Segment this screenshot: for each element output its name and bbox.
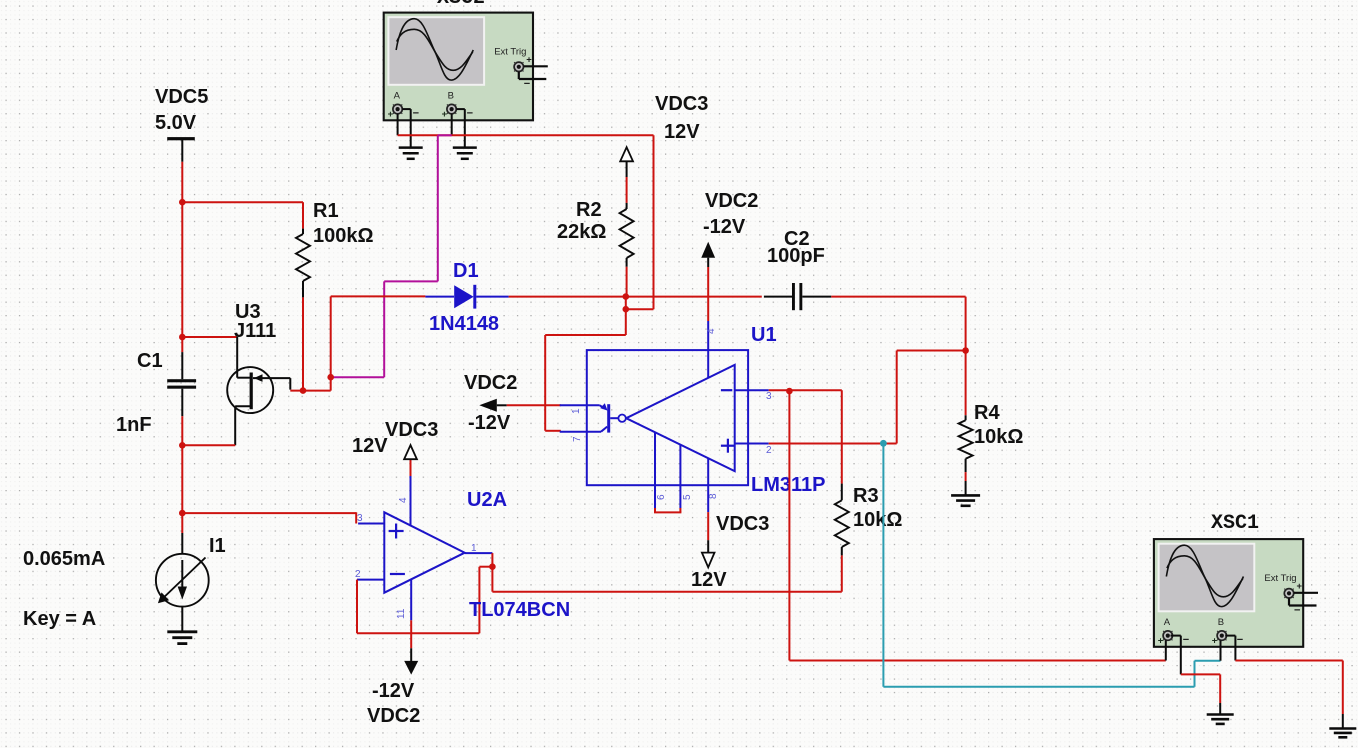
- svg-text:-12V: -12V: [372, 680, 415, 702]
- svg-text:VDC3: VDC3: [385, 419, 438, 441]
- svg-text:7: 7: [572, 436, 583, 442]
- svg-text:B: B: [1218, 617, 1224, 628]
- svg-text:−: −: [524, 78, 530, 90]
- svg-text:−: −: [1294, 604, 1300, 616]
- svg-text:1nF: 1nF: [116, 414, 152, 436]
- svg-text:U2A: U2A: [467, 489, 507, 511]
- svg-text:100pF: 100pF: [767, 245, 825, 267]
- svg-text:R3: R3: [853, 485, 879, 507]
- svg-text:11: 11: [396, 608, 407, 619]
- svg-text:−: −: [467, 108, 473, 120]
- svg-text:XSC1: XSC1: [1211, 512, 1259, 535]
- svg-text:−: −: [1183, 634, 1189, 646]
- svg-text:LM311P: LM311P: [751, 474, 825, 496]
- svg-text:3: 3: [357, 513, 363, 524]
- svg-text:+: +: [1212, 636, 1218, 647]
- svg-text:4: 4: [706, 328, 717, 334]
- svg-text:10kΩ: 10kΩ: [853, 509, 902, 531]
- svg-text:TL074BCN: TL074BCN: [469, 599, 570, 621]
- svg-text:2: 2: [355, 569, 361, 580]
- svg-text:A: A: [1164, 617, 1171, 628]
- svg-text:5.0V: 5.0V: [155, 112, 197, 134]
- svg-text:1: 1: [571, 408, 582, 414]
- svg-text:B: B: [448, 91, 454, 102]
- svg-text:1N4148: 1N4148: [429, 313, 499, 335]
- svg-text:6: 6: [656, 494, 667, 500]
- svg-text:100kΩ: 100kΩ: [313, 225, 374, 247]
- svg-text:12V: 12V: [691, 569, 727, 591]
- svg-text:J111: J111: [234, 320, 276, 342]
- svg-text:+: +: [526, 54, 532, 65]
- svg-text:3: 3: [766, 391, 772, 402]
- svg-text:1: 1: [471, 543, 477, 554]
- svg-text:C1: C1: [137, 350, 163, 372]
- svg-text:VDC3: VDC3: [655, 93, 708, 115]
- svg-text:A: A: [394, 91, 401, 102]
- svg-text:−: −: [1237, 634, 1243, 646]
- svg-text:-12V: -12V: [468, 412, 511, 434]
- svg-text:12V: 12V: [664, 121, 700, 143]
- svg-text:5: 5: [682, 494, 693, 500]
- svg-text:VDC2: VDC2: [705, 190, 758, 212]
- svg-text:XSC2: XSC2: [437, 0, 485, 10]
- svg-text:+: +: [388, 109, 394, 120]
- svg-text:VDC5: VDC5: [155, 86, 208, 108]
- svg-text:2: 2: [766, 445, 772, 456]
- svg-text:VDC2: VDC2: [464, 372, 517, 394]
- svg-text:12V: 12V: [352, 435, 388, 457]
- svg-text:Key = A: Key = A: [23, 608, 96, 630]
- svg-text:+: +: [1158, 636, 1164, 647]
- svg-text:-12V: -12V: [703, 216, 746, 238]
- svg-text:VDC2: VDC2: [367, 705, 420, 727]
- svg-text:8: 8: [708, 493, 719, 499]
- svg-text:U1: U1: [751, 324, 777, 346]
- svg-text:+: +: [1297, 581, 1303, 592]
- svg-text:0.065mA: 0.065mA: [23, 548, 105, 570]
- svg-text:Ext Trig: Ext Trig: [494, 47, 526, 58]
- svg-text:+: +: [442, 109, 448, 120]
- svg-text:4: 4: [398, 497, 409, 503]
- svg-text:R2: R2: [576, 199, 602, 221]
- svg-text:VDC3: VDC3: [716, 513, 769, 535]
- svg-text:Ext Trig: Ext Trig: [1264, 573, 1296, 584]
- svg-text:D1: D1: [453, 260, 479, 282]
- svg-text:22kΩ: 22kΩ: [557, 221, 606, 243]
- svg-text:I1: I1: [209, 535, 226, 557]
- svg-text:R1: R1: [313, 200, 339, 222]
- svg-text:R4: R4: [974, 402, 1000, 424]
- svg-text:−: −: [413, 108, 419, 120]
- svg-text:10kΩ: 10kΩ: [974, 426, 1023, 448]
